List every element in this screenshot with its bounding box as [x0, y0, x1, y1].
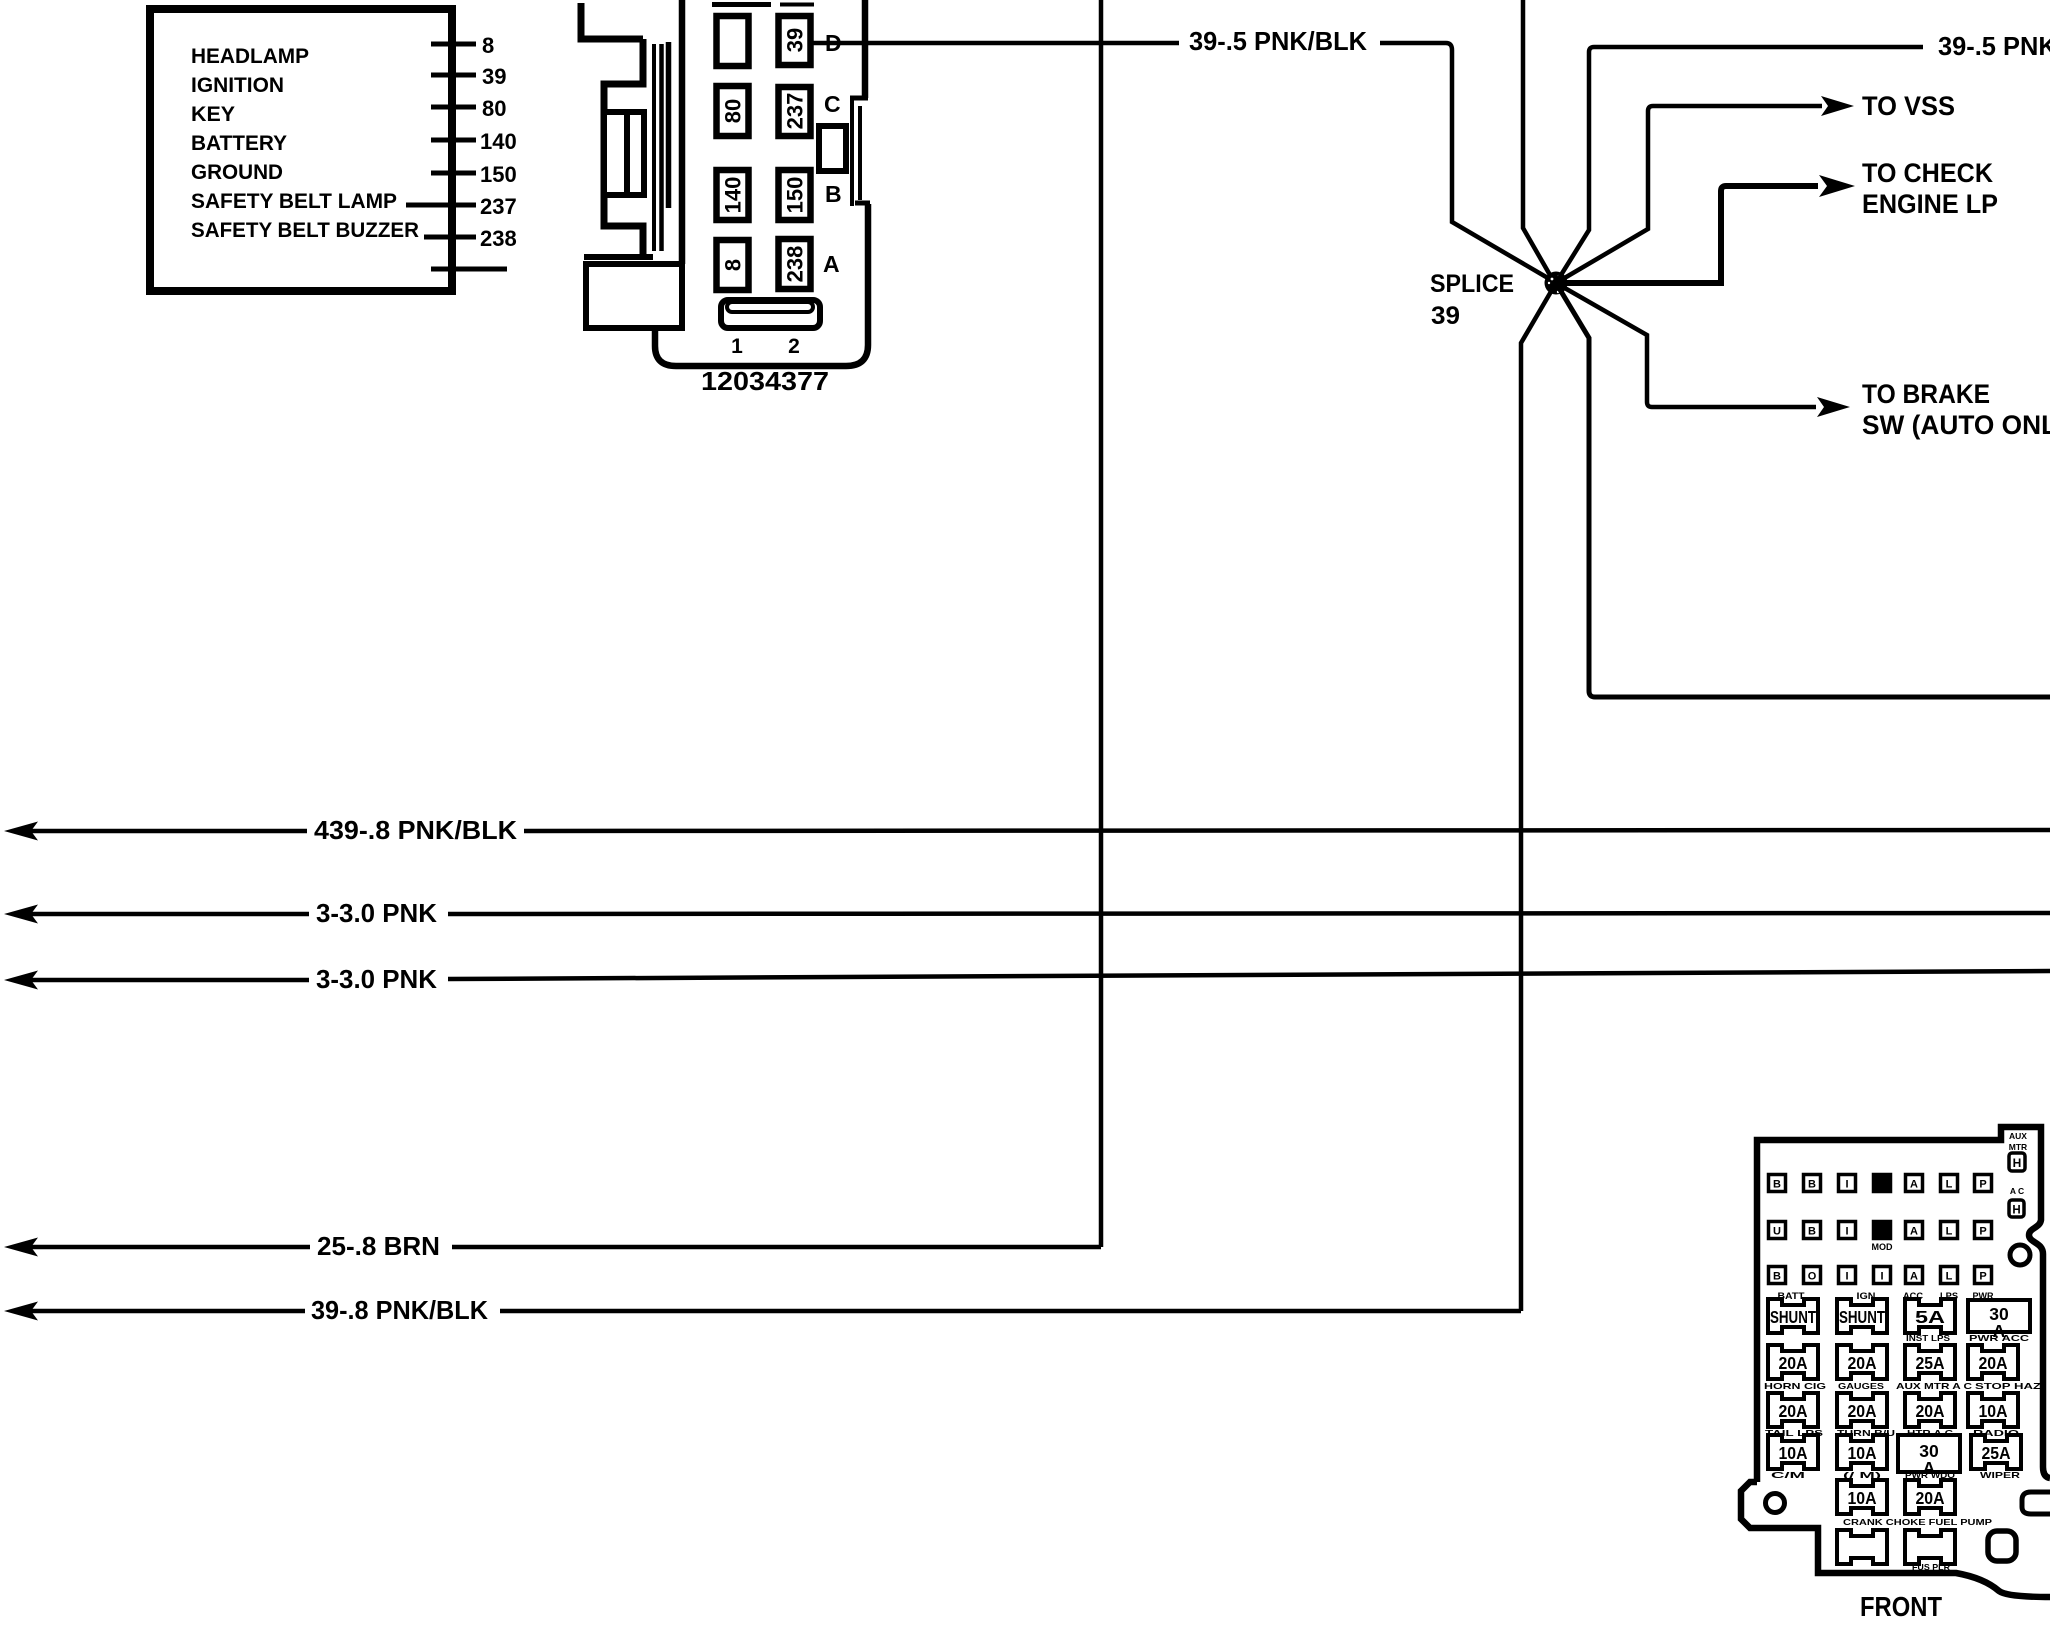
fuse SHUNT batt: [1768, 1299, 1818, 1333]
svg-text:20A: 20A: [1848, 1353, 1877, 1373]
fuse 20A choke fuel pump: [1905, 1480, 1955, 1514]
wire 25-.8 BRN: [4, 1231, 1101, 1261]
crank choke label: [1843, 1518, 1993, 1527]
svg-text:GAUGES: GAUGES: [1838, 1381, 1884, 1391]
svg-text:TO CHECK: TO CHECK: [1862, 158, 1993, 188]
svg-text:10A: 10A: [1848, 1488, 1877, 1508]
svg-text:150: 150: [783, 177, 808, 214]
svg-text:I: I: [1845, 1226, 1848, 1238]
svg-text:237: 237: [783, 93, 808, 130]
fuse block ear hole: [1766, 1494, 1785, 1513]
fuse block terminal row 2: [1769, 1222, 1992, 1253]
svg-text:39-.5 PNK/BLK: 39-.5 PNK/BLK: [1189, 26, 1367, 56]
legend pin tick 238: [424, 226, 517, 251]
pin B label: [825, 181, 842, 207]
fuse block terminal row 3: [1769, 1267, 1992, 1284]
pin 2 label: [788, 335, 800, 358]
terminal pocket near pin C: [819, 126, 846, 171]
wire 439-.8 PNK/BLK: [4, 815, 2050, 845]
fuse block bottom slot: [1988, 1531, 2016, 1561]
connector housing inner wall: [666, 42, 672, 208]
svg-text:FUS PLR: FUS PLR: [1912, 1562, 1950, 1572]
svg-text:25A: 25A: [1982, 1443, 2011, 1463]
svg-text:20A: 20A: [1779, 1353, 1808, 1373]
fuse SHUNT ign: [1837, 1299, 1887, 1333]
wire splice down-left to 39-.8 line: [1521, 283, 1556, 1311]
svg-text:A C: A C: [2010, 1186, 2024, 1196]
fuse 5A inst lps: [1905, 1299, 1955, 1343]
svg-text:MOD: MOD: [1872, 1242, 1893, 1252]
connector housing bottom edge: [584, 254, 653, 260]
svg-text:238: 238: [480, 226, 517, 251]
connector housing thin ribs: [654, 44, 662, 251]
fuse 25A wiper: [1971, 1435, 2021, 1480]
connector 12034377 body left wall: [679, 0, 686, 264]
svg-text:A: A: [823, 251, 840, 277]
fuse column headers: [1778, 1291, 1994, 1301]
connector 12034377 body right wall upper: [862, 0, 869, 98]
svg-text:GROUND: GROUND: [191, 160, 283, 184]
svg-text:SAFETY BELT LAMP: SAFETY BELT LAMP: [191, 189, 397, 213]
svg-text:A: A: [1910, 1179, 1918, 1191]
svg-text:SPLICE: SPLICE: [1430, 270, 1514, 298]
pin A label: [823, 251, 840, 277]
svg-text:8: 8: [721, 259, 746, 271]
svg-text:C: C: [824, 91, 841, 117]
svg-text:KEY: KEY: [191, 102, 235, 126]
legend pin tick 8: [431, 33, 494, 58]
wire 39-.8 PNK/BLK: [4, 1295, 1521, 1325]
pin cavity 39: [779, 16, 811, 65]
svg-text:STOP HAZ: STOP HAZ: [1975, 1381, 2041, 1391]
svg-text:SHUNT: SHUNT: [1770, 1307, 1816, 1327]
svg-text:B: B: [1808, 1226, 1816, 1238]
svg-text:3-3.0 PNK: 3-3.0 PNK: [316, 964, 437, 994]
svg-text:20A: 20A: [1916, 1401, 1945, 1421]
svg-text:25-.8 BRN: 25-.8 BRN: [317, 1231, 440, 1261]
svg-text:B: B: [1773, 1271, 1781, 1283]
svg-text:HORN CIG: HORN CIG: [1764, 1381, 1827, 1391]
svg-text:439-.8 PNK/BLK: 439-.8 PNK/BLK: [314, 815, 517, 845]
pin D label: [825, 30, 842, 56]
wire splice down-right elbow to right edge: [1556, 283, 2050, 697]
pin 1 label: [731, 335, 743, 358]
svg-text:I: I: [1845, 1271, 1848, 1283]
svg-text:L: L: [1946, 1179, 1953, 1191]
svg-text:L: L: [1946, 1226, 1953, 1238]
legend pin tick 80: [431, 96, 506, 121]
svg-text:H: H: [2012, 1205, 2020, 1217]
splice 39 dot: [1545, 272, 1568, 295]
svg-text:FRONT: FRONT: [1860, 1591, 1942, 1622]
fuse 30A pwr acc: [1968, 1300, 2030, 1343]
svg-text:10A: 10A: [1848, 1443, 1877, 1463]
svg-text:1: 1: [731, 335, 743, 358]
wire to check engine lamp: [1556, 158, 1998, 283]
svg-text:140: 140: [480, 129, 517, 154]
fuse block AUX MTR tab labels: [2009, 1131, 2028, 1217]
svg-text:A: A: [1910, 1226, 1918, 1238]
svg-text:20A: 20A: [1779, 1401, 1808, 1421]
legend pin tick 39: [431, 64, 506, 89]
wire 39-.5 PNK/BLK from pin D: [813, 26, 1553, 281]
pin cavity blank: [717, 16, 749, 66]
svg-text:H: H: [2013, 1156, 2022, 1170]
pin cavity 8: [717, 240, 749, 290]
svg-text:AUX: AUX: [2009, 1131, 2027, 1141]
svg-text:MTR: MTR: [2009, 1142, 2027, 1152]
svg-text:WIPER: WIPER: [1980, 1470, 2020, 1480]
fuse 20A turn bu: [1837, 1393, 1895, 1438]
svg-text:HEADLAMP: HEADLAMP: [191, 44, 309, 68]
svg-text:140: 140: [721, 177, 746, 214]
svg-text:3-3.0 PNK: 3-3.0 PNK: [316, 898, 437, 928]
svg-text:PWR ACC: PWR ACC: [1969, 1333, 2029, 1343]
svg-text:20A: 20A: [1916, 1488, 1945, 1508]
legend pin tick 237: [406, 194, 517, 219]
svg-text:CRANK CHOKE FUEL PUMP: CRANK CHOKE FUEL PUMP: [1843, 1518, 1993, 1527]
wire 3-3.0 PNK upper: [4, 898, 2050, 928]
fuse block right hole: [2010, 1245, 2030, 1265]
svg-text:TO BRAKE: TO BRAKE: [1862, 379, 1990, 409]
instrument cluster legend box: [150, 9, 452, 291]
connector 12034377 body bottom shell: [655, 204, 868, 366]
fuse 10A i/m: [1837, 1435, 1887, 1480]
pin cavity 238: [779, 239, 811, 289]
svg-text:10A: 10A: [1979, 1401, 2008, 1421]
svg-text:12034377: 12034377: [701, 366, 829, 396]
legend pin tick 150: [431, 162, 517, 187]
svg-text:TO VSS: TO VSS: [1862, 91, 1955, 121]
svg-text:39-.8 PNK/BLK: 39-.8 PNK/BLK: [311, 1295, 488, 1325]
svg-text:20A: 20A: [1848, 1401, 1877, 1421]
fuse 20A gauges: [1837, 1345, 1887, 1391]
svg-text:A: A: [1910, 1271, 1918, 1283]
svg-text:C/M: C/M: [1771, 1470, 1805, 1480]
svg-text:BATTERY: BATTERY: [191, 131, 287, 155]
wire to brake switch: [1556, 283, 2050, 440]
connector housing latch window: [604, 112, 644, 195]
vertical wire x=1523 into splice: [1523, 0, 1554, 282]
svg-text:237: 237: [480, 194, 517, 219]
connector 12034377 right wall jog: [850, 98, 870, 206]
svg-text:O: O: [1808, 1271, 1817, 1283]
connector housing left profile notch: [604, 39, 643, 257]
svg-text:ENGINE LP: ENGINE LP: [1862, 189, 1998, 219]
svg-text:L: L: [1946, 1271, 1953, 1283]
svg-text:INST LPS: INST LPS: [1906, 1333, 1950, 1343]
svg-text:39-.5 PNK/BLK: 39-.5 PNK/BLK: [1938, 31, 2050, 61]
svg-text:80: 80: [721, 99, 746, 123]
connector top edge fragments: [712, 2, 814, 7]
wire 39-.5 PNK top right branch: [1556, 31, 2050, 283]
svg-text:B: B: [1773, 1179, 1781, 1191]
svg-text:8: 8: [482, 33, 494, 58]
fuse 10A radio: [1968, 1393, 2020, 1438]
svg-text:39: 39: [482, 64, 506, 89]
svg-text:SAFETY BELT BUZZER: SAFETY BELT BUZZER: [191, 218, 419, 242]
fuse 20A stop haz: [1968, 1345, 2041, 1391]
legend pin tick blank: [431, 267, 507, 272]
pin cavity 80: [717, 86, 749, 136]
FRONT label: [1860, 1591, 1942, 1622]
svg-text:150: 150: [480, 162, 517, 187]
svg-text:P: P: [1979, 1179, 1986, 1191]
connector housing left profile top L: [581, 3, 643, 39]
svg-text:B: B: [825, 181, 842, 207]
svg-text:P: P: [1979, 1226, 1986, 1238]
part number 12034377: [701, 366, 829, 396]
fuse 10A crank: [1837, 1480, 1887, 1514]
pin C label: [824, 91, 841, 117]
connector lock slot: [721, 300, 820, 328]
pin cavity 150: [779, 170, 811, 220]
fuse 20A htr ac: [1905, 1393, 1955, 1438]
pin cavity 140: [717, 170, 749, 220]
svg-text:39: 39: [1431, 302, 1460, 330]
fuse 20A horn: [1764, 1345, 1827, 1391]
fuse 10A clk: [1768, 1435, 1818, 1480]
fuse 20A tail lps: [1765, 1393, 1824, 1438]
svg-text:B: B: [1808, 1179, 1816, 1191]
svg-text:238: 238: [783, 246, 808, 283]
svg-text:39: 39: [783, 28, 808, 52]
splice label SPLICE 39: [1430, 270, 1514, 330]
svg-text:P: P: [1979, 1271, 1986, 1283]
svg-text:AUX MTR A C: AUX MTR A C: [1896, 1381, 1972, 1391]
svg-text:5A: 5A: [1915, 1307, 1945, 1327]
svg-text:10A: 10A: [1779, 1443, 1808, 1463]
fuse 25A aux mtr: [1896, 1345, 1972, 1391]
svg-text:I: I: [1845, 1179, 1848, 1191]
fuse spare left: [1837, 1530, 1887, 1564]
legend pin tick 140: [431, 129, 517, 154]
connector housing lower block: [586, 264, 682, 328]
svg-text:I: I: [1880, 1271, 1883, 1283]
svg-text:IGNITION: IGNITION: [191, 73, 284, 97]
fuse block right edge notch: [2022, 1492, 2050, 1514]
pin cavity 237: [779, 87, 811, 136]
svg-text:SW (AUTO ONLY): SW (AUTO ONLY): [1862, 410, 2050, 440]
svg-text:80: 80: [482, 96, 506, 121]
fuse spare fus plr: [1905, 1530, 1955, 1572]
vertical bus wire x=1101: [1099, 0, 1104, 1247]
svg-text:SHUNT: SHUNT: [1839, 1307, 1885, 1327]
wire to VSS: [1556, 91, 1955, 283]
fuse block outline: [1757, 1127, 2050, 1482]
wire 3-3.0 PNK lower: [4, 964, 2050, 994]
svg-text:2: 2: [788, 335, 800, 358]
fuse 30A pwr wdo: [1898, 1435, 1960, 1480]
svg-text:U: U: [1773, 1226, 1781, 1238]
svg-text:25A: 25A: [1916, 1353, 1945, 1373]
fuse block mounting ear and bottom edge: [1741, 1482, 2050, 1597]
fuse block terminal row 1: [1769, 1175, 1992, 1192]
svg-text:20A: 20A: [1979, 1353, 2008, 1373]
